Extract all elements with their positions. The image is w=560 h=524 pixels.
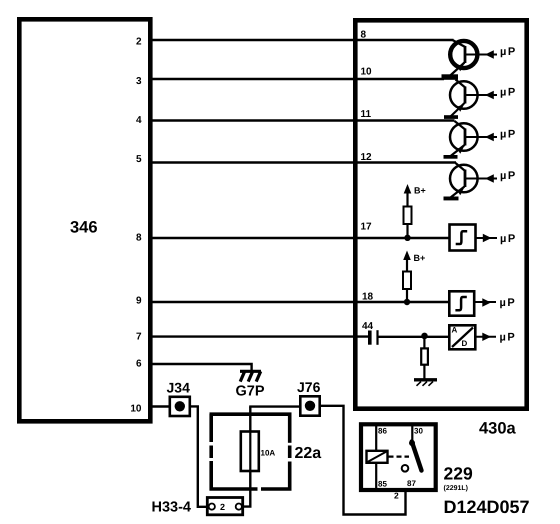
- arrow U1 to uP: [476, 234, 498, 242]
- wire capacitor to A/D: [379, 336, 449, 338]
- ground: [414, 380, 437, 386]
- svg-text:µP: µP: [500, 86, 517, 98]
- transistor Q2: [450, 80, 497, 117]
- relay coil K1: [367, 451, 388, 463]
- connector H33-4: [207, 498, 242, 515]
- svg-text:346: 346: [70, 219, 98, 237]
- junction node pin44: [421, 333, 428, 340]
- svg-text:87: 87: [407, 479, 416, 488]
- arrow U2 to uP: [474, 298, 496, 306]
- svg-text:J76: J76: [297, 379, 321, 395]
- svg-text:µP: µP: [500, 128, 517, 140]
- B+ supply arrow 1: [404, 184, 412, 207]
- svg-text:86: 86: [378, 427, 387, 436]
- junction node pin18: [404, 299, 410, 305]
- svg-text:5: 5: [136, 154, 142, 165]
- junction node pin17: [404, 235, 410, 241]
- wire 346.5 to 430a.12: [150, 161, 456, 163]
- svg-text:2: 2: [220, 502, 225, 512]
- svg-text:µP: µP: [500, 332, 517, 344]
- relay pin 30 lead: [411, 426, 413, 443]
- svg-text:4: 4: [136, 115, 142, 126]
- svg-text:229: 229: [444, 464, 473, 484]
- connector J34: [170, 397, 190, 416]
- svg-text:10A: 10A: [261, 449, 276, 458]
- wire 346.7 to capacitor 430a.44: [150, 335, 369, 337]
- svg-text:10: 10: [361, 67, 373, 78]
- wire 346.8 to 430a.17: [150, 237, 450, 239]
- svg-text:30: 30: [414, 427, 423, 436]
- svg-text:µP: µP: [500, 170, 517, 182]
- wire fuse vertical through box: [249, 407, 251, 432]
- transistor Q4: [450, 163, 497, 198]
- svg-text:6: 6: [136, 359, 142, 370]
- fuse F1: [241, 432, 259, 472]
- resistor R1: [404, 207, 412, 225]
- svg-text:3: 3: [136, 76, 142, 87]
- relay contact node 87: [402, 465, 409, 472]
- resistor R3: [421, 348, 428, 364]
- B+ supply arrow 2: [403, 251, 411, 273]
- wire R2 to pin18: [406, 289, 408, 303]
- wire 346.10 to J34: [150, 405, 170, 407]
- svg-text:2: 2: [394, 491, 399, 501]
- control unit 346 box: [19, 19, 150, 421]
- wire fuse top to J76: [249, 405, 300, 407]
- svg-text:430a: 430a: [479, 420, 517, 438]
- svg-text:µP: µP: [500, 297, 517, 309]
- svg-text:H33-4: H33-4: [152, 500, 192, 516]
- relay pin 85 lead: [375, 463, 377, 489]
- capacitor C1 (pin 44): [368, 330, 379, 345]
- svg-text:B+: B+: [414, 253, 426, 263]
- relay armature switch: [412, 442, 422, 471]
- resistor R2: [403, 272, 411, 290]
- wire J76 to relay contact 87: [320, 406, 406, 515]
- wire 346.3 to 430a.10: [150, 78, 444, 80]
- fuse holder box 22a (dashed): [210, 414, 292, 491]
- transistor Q3: [450, 121, 497, 157]
- wire 346.2 to 430a.8: [150, 39, 454, 41]
- fuse wire inside: [249, 432, 251, 472]
- wire R3 to ground: [423, 366, 425, 380]
- svg-text:A: A: [452, 326, 458, 335]
- svg-text:µP: µP: [500, 233, 517, 245]
- svg-text:D: D: [462, 339, 468, 348]
- svg-text:11: 11: [361, 109, 372, 120]
- svg-text:10: 10: [130, 404, 142, 415]
- svg-text:G7P: G7P: [236, 384, 265, 400]
- wire 346.4 to 430a.11: [150, 119, 455, 121]
- svg-text:7: 7: [136, 332, 142, 343]
- svg-text:44: 44: [362, 321, 374, 332]
- svg-text:9: 9: [136, 296, 142, 307]
- junction bar pin12/Q3 emitter: [444, 155, 458, 159]
- transistor Q1 (output driver, bold): [450, 40, 497, 76]
- relay pin 86 lead: [375, 426, 377, 451]
- connector J76: [300, 396, 319, 415]
- A/D converter U3: [449, 325, 475, 349]
- threshold stage U1 (integral box): [450, 225, 476, 251]
- wire 346.6 to G7P: [150, 364, 252, 371]
- svg-text:8: 8: [136, 233, 142, 244]
- instrument cluster 430a box: [355, 20, 526, 408]
- termination bar Q4 emitter: [444, 197, 459, 201]
- wire H33-4 right pin to fuse: [242, 471, 250, 507]
- svg-text:B+: B+: [414, 186, 426, 196]
- svg-text:µP: µP: [500, 46, 517, 58]
- relay actuation dashed link: [389, 456, 410, 458]
- threshold stage U2 (integral box): [449, 291, 474, 315]
- relay 229 box: [361, 424, 436, 490]
- svg-text:2: 2: [136, 37, 142, 48]
- arrow U3 to uP: [474, 333, 496, 341]
- wire J34 to H33-4 left pin: [191, 406, 209, 506]
- wire R1 to pin17: [406, 224, 408, 238]
- svg-text:D124D057: D124D057: [444, 497, 530, 517]
- junction bar pin10/Q1 emitter: [442, 74, 459, 80]
- svg-text:(2291L): (2291L): [444, 484, 469, 492]
- wire node to R3: [423, 337, 425, 349]
- svg-text:85: 85: [378, 480, 387, 489]
- junction bar pin11/Q2 emitter: [444, 115, 458, 119]
- wire 346.9 to 430a.18: [150, 301, 448, 303]
- svg-text:22a: 22a: [295, 445, 322, 462]
- svg-text:17: 17: [361, 222, 373, 233]
- svg-text:J34: J34: [167, 380, 191, 396]
- sensor element G7P symbol: [240, 371, 261, 381]
